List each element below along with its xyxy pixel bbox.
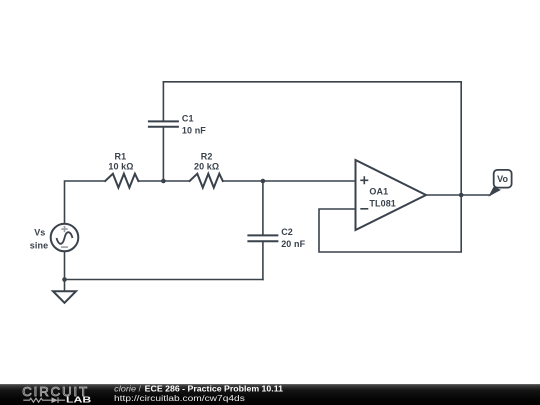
wire C1 bottom lead to node A <box>162 127 164 181</box>
node A junction dot <box>161 179 166 184</box>
wire ground lead <box>64 280 66 292</box>
wire node A to R2 <box>138 180 189 182</box>
svg-text:C1: C1 <box>182 114 194 124</box>
flag Vo box <box>494 170 512 188</box>
logo schematic line with resistor <box>23 398 51 402</box>
node B junction dot <box>261 179 266 184</box>
capacitor C1 plates <box>149 121 178 126</box>
svg-text:C2: C2 <box>281 227 293 237</box>
op-amp minus input mark <box>360 208 368 210</box>
wire Vs top lead <box>65 181 106 224</box>
footer bar <box>0 384 540 405</box>
wire C2 bottom lead <box>262 241 264 279</box>
logo diode symbol <box>52 397 59 403</box>
svg-text:R1: R1 <box>115 151 127 161</box>
svg-text:20 kΩ: 20 kΩ <box>194 161 219 171</box>
resistor R2 <box>190 174 223 188</box>
wire op-amp inverting feedback loop <box>319 195 461 253</box>
svg-text:10 nF: 10 nF <box>182 125 206 135</box>
wire Vs bottom lead <box>64 251 66 279</box>
svg-text:20 nF: 20 nF <box>281 239 305 249</box>
svg-text:R2: R2 <box>201 151 213 161</box>
op-amp OA1 triangle <box>356 160 427 230</box>
wire R2 to op-amp + input <box>223 180 356 182</box>
source plus polarity mark <box>61 226 67 232</box>
svg-text:http://circuitlab.com/cw7q4ds: http://circuitlab.com/cw7q4ds <box>114 394 245 403</box>
svg-text:Vo: Vo <box>497 174 508 184</box>
wire bottom rail from Vs to C2 <box>65 279 263 281</box>
voltage source Vs circle <box>51 224 79 252</box>
flag Vo pointer <box>488 187 501 197</box>
svg-text:LAB: LAB <box>66 395 92 404</box>
svg-text:TL081: TL081 <box>369 198 396 208</box>
wire C2 top lead <box>262 181 264 235</box>
svg-text:sine: sine <box>30 240 48 250</box>
ground symbol <box>53 291 76 303</box>
wire op-amp output <box>426 194 490 196</box>
svg-text:clorie: clorie <box>114 384 137 393</box>
capacitor C2 plates <box>248 235 277 241</box>
op-amp plus input mark <box>360 176 368 184</box>
svg-text:Vs: Vs <box>34 227 45 237</box>
svg-text:OA1: OA1 <box>369 186 388 196</box>
node Vo junction dot <box>459 193 464 198</box>
node ground junction dot <box>62 277 67 282</box>
wire top feedback from C1 top to output node <box>163 82 461 195</box>
source sine glyph <box>57 232 73 244</box>
wire C1 top lead <box>162 82 164 121</box>
source minus polarity mark <box>61 246 68 248</box>
svg-text:10 kΩ: 10 kΩ <box>108 161 133 171</box>
resistor R1 <box>105 174 138 188</box>
svg-text:ECE 286 - Practice Problem 10.: ECE 286 - Practice Problem 10.11 <box>145 384 284 393</box>
